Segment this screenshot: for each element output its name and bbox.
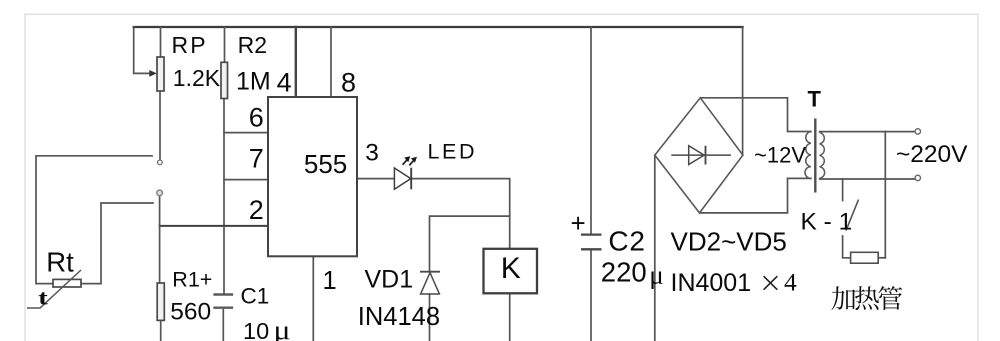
LED light arrows: [403, 160, 414, 165]
wire : pin4: [295, 27, 297, 97]
wire : bridge left corner down: [654, 155, 656, 341]
wire : bridge bottom corner to secondary bottom: [700, 178, 811, 213]
wire : pin8: [330, 27, 332, 97]
diode VD1 cathode bar: [420, 271, 440, 273]
svg-text:220: 220: [601, 257, 647, 288]
potentiometer RP wiper arrow: [149, 70, 157, 77]
wire : pin6 stub: [224, 132, 268, 134]
wire : primary top to 220V terminal: [820, 131, 916, 133]
capacitor C1 plates: [213, 295, 233, 308]
wire : pin7 stub: [224, 179, 268, 181]
svg-text:T: T: [808, 87, 822, 112]
svg-text:~12V: ~12V: [754, 143, 806, 168]
LED cathode bar: [410, 168, 412, 190]
svg-text:IN4148: IN4148: [358, 303, 440, 331]
wire : pin2 from probe junction: [160, 225, 268, 227]
wire : VD1 bottom: [429, 294, 431, 341]
svg-text:6: 6: [249, 103, 264, 133]
svg-text:2: 2: [249, 195, 264, 225]
transformer primary winding: [820, 133, 825, 179]
potentiometer RP body: [157, 57, 164, 91]
LED D symbol: [394, 168, 410, 189]
wire : bridge top corner to secondary top: [700, 98, 811, 132]
bridge rectifier diamond VD2~VD5: [655, 98, 743, 213]
heater element box: [851, 252, 879, 263]
IC 555 box U1: [268, 97, 357, 256]
svg-text:μ: μ: [649, 261, 664, 290]
label x4: [764, 276, 778, 290]
wire : C2 top: [590, 27, 592, 234]
wire : heater left stub to switch: [843, 236, 851, 258]
svg-text:7: 7: [249, 144, 264, 174]
svg-text:R1+: R1+: [172, 268, 212, 292]
svg-text:t: t: [38, 286, 48, 310]
svg-text:C2: C2: [608, 226, 645, 257]
connector circle upper: [158, 160, 163, 165]
terminal circle 220V top: [915, 129, 920, 134]
wire : R2 bottom down to C1: [223, 99, 225, 294]
svg-text:1.2K: 1.2K: [173, 65, 221, 91]
wire : w1 left loop top: [36, 156, 152, 284]
svg-text:R2: R2: [238, 32, 267, 58]
wire : K bottom: [509, 294, 511, 341]
wire : RP top: [160, 27, 162, 57]
relay coil K box: [484, 249, 538, 293]
wire : LED to relay corner: [412, 179, 510, 249]
svg-text:4: 4: [784, 268, 797, 297]
wire : pin3 to LED: [357, 178, 394, 180]
bridge inner diode line: [671, 154, 731, 156]
resistor R2 body: [221, 62, 228, 98]
bridge inner diode bar: [705, 146, 707, 165]
wire : C2 bottom: [590, 250, 592, 341]
wire : pin1: [312, 256, 314, 341]
wire : RP bottom to connector: [159, 91, 161, 160]
svg-text:IN4001: IN4001: [671, 269, 752, 297]
svg-text:Rt: Rt: [46, 247, 74, 278]
wire : bus left drop to RP wiper: [134, 27, 152, 73]
wire : C1 bottom: [222, 309, 224, 341]
svg-text:10: 10: [243, 318, 269, 341]
terminal circle 220V bottom: [915, 175, 920, 180]
svg-text:1: 1: [323, 267, 337, 295]
svg-text:560: 560: [170, 299, 211, 326]
wire : R1 bottom: [160, 320, 162, 341]
capacitor C2 plates: [581, 235, 602, 250]
svg-text:+: +: [571, 208, 586, 238]
thermistor Rt body: [53, 279, 81, 287]
switch K-1 blade: [846, 200, 859, 231]
svg-text:~220V: ~220V: [896, 141, 968, 168]
svg-text:4: 4: [277, 67, 292, 97]
svg-text:VD1: VD1: [365, 266, 414, 294]
svg-text:K: K: [501, 252, 521, 285]
transformer secondary winding: [805, 132, 811, 179]
wire : +V top bus: [134, 26, 743, 28]
wire : heater right stub: [878, 257, 885, 259]
svg-text:3: 3: [365, 140, 379, 167]
transformer T core: [814, 119, 816, 193]
svg-text:8: 8: [341, 68, 356, 98]
wire : probe lower vertical to R1: [159, 196, 161, 283]
wire : primary bottom to 220V terminal: [820, 178, 916, 180]
connector circle lower: [157, 190, 163, 196]
wire : Rt right to w2 loop: [81, 203, 153, 284]
bridge inner diode triangle: [689, 146, 705, 165]
thermistor Rt diagonal: [27, 270, 81, 308]
wire : heater feed vertical: [884, 132, 886, 258]
svg-text:555: 555: [304, 149, 347, 179]
label heating tube (drawn CJK paths): [832, 286, 903, 310]
wire : bus right drop to bridge: [742, 27, 744, 155]
diode VD1 triangle: [421, 273, 440, 294]
svg-text:VD2~VD5: VD2~VD5: [671, 227, 787, 257]
wire : R2 top: [224, 27, 226, 62]
wire : K-1 top stub: [842, 179, 844, 201]
resistor R1 body: [157, 283, 164, 320]
svg-text:RP: RP: [172, 32, 208, 58]
svg-text:1M: 1M: [236, 68, 271, 96]
svg-text:K - 1: K - 1: [801, 209, 853, 236]
svg-text:C1: C1: [241, 283, 270, 308]
svg-text:μ: μ: [274, 315, 291, 341]
svg-text:LED: LED: [428, 140, 478, 164]
wire : VD1 branch: [430, 216, 510, 271]
